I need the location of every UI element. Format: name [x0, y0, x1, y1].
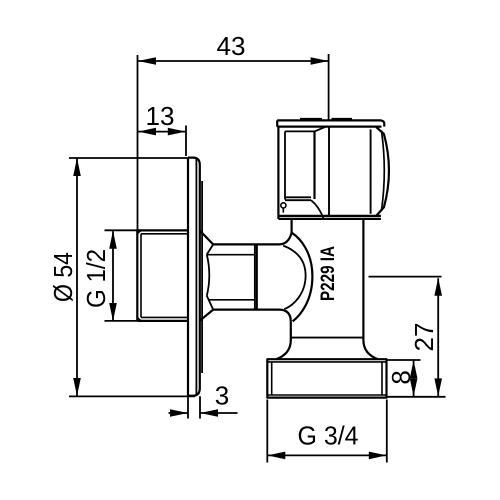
svg-text:8: 8 — [386, 370, 416, 384]
svg-text:G 3/4: G 3/4 — [298, 421, 359, 451]
svg-text:Ø 54: Ø 54 — [48, 252, 78, 302]
svg-text:13: 13 — [146, 101, 175, 131]
svg-text:G 1/2: G 1/2 — [81, 249, 111, 308]
svg-text:P229 IA: P229 IA — [318, 246, 339, 301]
svg-text:43: 43 — [217, 31, 246, 61]
svg-text:3: 3 — [215, 381, 229, 411]
svg-text:27: 27 — [409, 323, 439, 352]
